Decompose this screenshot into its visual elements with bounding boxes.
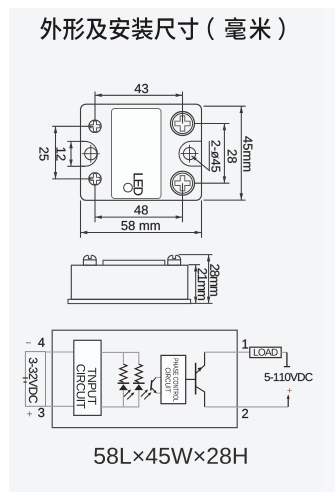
DC input source box 3-32VDC (25, 352, 45, 407)
dim text 48 (134, 205, 148, 214)
LED D2 (optocoupler emitter) (133, 382, 145, 384)
dim 58 line (81, 232, 202, 234)
dim 21mm arrows (194, 265, 198, 272)
wires phototransistor to phase control (156, 377, 161, 393)
output terminal screw at y=183.2 (171, 171, 195, 195)
terminal 3 plus sign (27, 411, 32, 416)
leader line 2-o4.5 (192, 141, 210, 171)
dim text 28 (228, 150, 237, 163)
SSR enclosure box (52, 330, 237, 427)
input circuit block U1 (74, 340, 101, 415)
dim 48 line (95, 216, 183, 218)
side view body (71, 265, 188, 299)
Q2 lower lead (196, 386, 205, 407)
output terminal screw at y=123.5 (171, 112, 195, 136)
left mounting boss (81, 141, 97, 166)
dim 25 line (55, 126, 57, 179)
dim 58 arrows (81, 231, 88, 235)
dim text 45mm (243, 136, 252, 171)
wire terminal 3 (46, 405, 74, 407)
dim 12 extension lines (67, 141, 85, 166)
caption 58L x 45W x 28H (94, 448, 247, 464)
dim 21mm extension lines (189, 265, 213, 304)
left mounting hole ø4.5 (85, 148, 97, 160)
wire terminal 2 (205, 406, 289, 408)
dim text 21mm (198, 268, 207, 300)
title 外形及安装尺寸（毫米） (40, 17, 284, 40)
Q2 base wire (186, 378, 196, 380)
dim 48 extension lines (95, 183, 183, 222)
dim 45mm arrows (240, 106, 244, 113)
dim text 12 (56, 148, 65, 161)
LED D1 (indicator) (118, 382, 130, 384)
dim 28 extension lines (195, 124, 230, 184)
input terminal screw at y=126.3 (89, 120, 101, 132)
supply label 5-110VDC (265, 373, 313, 381)
dim 43 arrows (95, 94, 102, 98)
resistor R2 (135, 364, 142, 382)
supply plus terminal arrow (287, 397, 289, 407)
right mounting boss (179, 141, 201, 166)
dim 12 line (70, 141, 72, 166)
raised center section (103, 260, 165, 265)
right mounting hole ø4.5 (183, 148, 195, 160)
label PHASE CONTROL CIRCUIT (173, 359, 178, 402)
dim 43 extension lines (95, 92, 183, 124)
dim 43 line (95, 94, 183, 96)
dim 45mm line (240, 106, 242, 200)
pin 3 (38, 408, 44, 417)
pin 1 (242, 340, 248, 349)
dim 12 arrows (69, 141, 73, 148)
dim text 28mm (210, 264, 219, 296)
dim 28 line (223, 124, 225, 184)
dim 58 extension lines (81, 201, 202, 238)
pin 2 (242, 409, 248, 418)
supply minus terminal (284, 352, 290, 366)
SSR body outline (top view) (81, 104, 202, 200)
dim text 58mm (121, 221, 159, 230)
base plate (68, 299, 191, 303)
terminal 4 minus sign (26, 342, 31, 345)
supply plus sign (287, 388, 292, 393)
resistor R1 (120, 364, 127, 382)
phototransistor Q1 (151, 380, 152, 390)
dim text 43 (135, 84, 149, 93)
input terminal screw at y=178.9 (89, 173, 101, 185)
LED label text (134, 173, 143, 195)
wire to terminal 1 (205, 351, 250, 353)
phase control circuit block U2 (161, 355, 186, 403)
wire load to supply minus (281, 351, 287, 353)
label TNPUT CIRCUIT (88, 368, 96, 405)
top rail wire (101, 352, 139, 364)
dim 28mm extension lines (179, 254, 213, 256)
load box (250, 347, 281, 357)
dim 48 arrows (95, 215, 102, 219)
Q2 upper lead with arrow (196, 352, 205, 373)
dim 25 extension lines (52, 126, 93, 179)
label panel (112, 109, 162, 199)
LED D2 light arrows (141, 391, 147, 397)
output transistor Q2 (195, 363, 197, 395)
LED D1 light arrows (124, 391, 130, 397)
load label (254, 349, 278, 356)
LED indicator window (124, 183, 133, 192)
dim 28mm arrows (207, 255, 211, 262)
battery polarity marks (23, 378, 28, 382)
dim 21mm line (195, 265, 197, 304)
bottom rail wire (101, 390, 139, 407)
terminal screw side view at x=174.2 (168, 255, 181, 265)
dim 45mm extension lines (204, 106, 246, 200)
terminal screw side view at x=89.8 (83, 255, 96, 265)
dim text 2-o4.5 (211, 141, 220, 173)
wire terminal 4 (46, 351, 74, 353)
pin 4 (38, 338, 45, 347)
dim 28mm line (208, 255, 210, 304)
leader arrow at mounting hole (190, 154, 196, 160)
dim text 25 (39, 147, 48, 160)
value label 3-32VDC (29, 358, 38, 403)
dim 25 arrows (54, 126, 58, 133)
dim 28 arrows (223, 124, 227, 131)
